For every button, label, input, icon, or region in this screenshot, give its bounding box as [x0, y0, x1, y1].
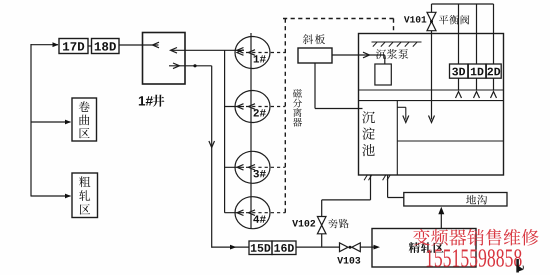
pipe V103 to finishing area: [360, 246, 376, 248]
label 4#: [253, 215, 265, 222]
wire pump header into well: [171, 49, 244, 51]
tank divider vertical: [396, 101, 398, 175]
valve V102: [317, 217, 326, 226]
box trench 地沟: [404, 193, 507, 207]
arrow pump 1# discharge: [237, 50, 244, 56]
arrow at pump 1 outlet pointing left: [237, 48, 244, 54]
label 2#: [254, 109, 266, 116]
arrow pump 4# discharge: [237, 210, 244, 216]
dashed suction line pump 2#: [246, 106, 285, 108]
cursor mark: [516, 259, 519, 273]
wire pump suction bus: [224, 50, 226, 212]
arrow up 1D: [474, 92, 480, 99]
dashed suction line pump 3#: [246, 166, 285, 168]
wire to box 17D: [31, 44, 58, 46]
wire well outlet: [169, 65, 212, 67]
tank water level hatch: [372, 41, 422, 43]
V101 drop pipe into tank: [431, 31, 433, 120]
box 15D: [249, 241, 272, 255]
valve V103: [340, 243, 349, 252]
box coiling area 卷曲区: [72, 98, 97, 141]
box slurry pump: [375, 64, 391, 85]
box 2D: [486, 64, 501, 78]
label 磁分离器 vertical: [293, 89, 302, 98]
wire left supply vertical: [30, 44, 32, 197]
box inclined plate: [298, 48, 332, 63]
arrow pump 3# discharge: [237, 165, 244, 171]
pump 4#: [235, 197, 270, 229]
feeder line 2D: [493, 4, 495, 64]
tank divider outlet stub: [397, 106, 406, 108]
pipe 16D to V103: [296, 246, 340, 248]
label 精轧区: [409, 242, 420, 253]
box 3D: [450, 64, 468, 78]
label 旁路: [328, 219, 339, 229]
label 沉浆泵: [376, 49, 386, 59]
wire well water column through pumps: [250, 33, 252, 229]
feeder line 1D: [476, 4, 478, 64]
arrow into roughing area box: [65, 194, 71, 199]
junction dot: [193, 64, 196, 67]
arrow into well pointing left: [171, 48, 178, 54]
label V102: [292, 220, 315, 227]
wire 17D-18D: [88, 45, 92, 47]
box finishing area 精轧区: [372, 229, 476, 268]
dashed boundary corner drop: [393, 19, 395, 34]
valve V101 balance valve: [431, 4, 433, 12]
arrow up 3D: [456, 92, 462, 99]
dashed suction line pump 4#: [246, 212, 285, 214]
suction stub 3D: [458, 78, 460, 90]
arrow into 17D: [53, 42, 59, 47]
label V101: [404, 16, 426, 22]
arrow at well inlet pointing left: [153, 42, 160, 48]
label 1#: [254, 55, 266, 62]
pump 1#: [235, 37, 270, 69]
arrow on supply pipe pointing right: [230, 245, 237, 250]
box 16D: [272, 241, 296, 255]
wire bus stub to pump 4#: [225, 212, 244, 214]
box 1D: [468, 64, 486, 78]
dashed boundary top: [283, 18, 394, 20]
wire bus stub to pump 2#: [225, 106, 244, 108]
tank lower level line: [397, 140, 503, 142]
box 17D: [59, 39, 88, 54]
wire branch to roughing area: [31, 195, 71, 197]
watermark text: [413, 229, 430, 246]
wire bus stub to pump 3#: [225, 166, 244, 168]
label 斜板: [303, 34, 313, 44]
label 3#: [253, 170, 265, 177]
box 18D: [92, 39, 120, 54]
suction stub 2D: [493, 78, 495, 90]
wire outlet down to supply pipe: [211, 66, 213, 248]
box roughing area 粗轧区: [72, 173, 98, 218]
wire branch to coiling area: [31, 121, 71, 123]
wire inclined plate to slurry pump: [332, 54, 385, 56]
arrow up 2D: [491, 92, 497, 99]
tank 沉淀池 outer box: [359, 34, 504, 176]
tank level line 2: [359, 100, 504, 102]
dashed boundary left vertical: [284, 19, 286, 214]
dashed suction line pump 1#: [246, 52, 285, 54]
wire finish area to trench with up arrow: [440, 214, 442, 229]
label V103: [337, 257, 360, 264]
box well 1#: [143, 33, 186, 85]
wire 18D to well: [119, 44, 159, 46]
arrow pump 2# discharge: [237, 104, 244, 110]
top rail: [432, 3, 494, 5]
arrow into coiling area box: [65, 120, 71, 125]
arrow well outlet pointing right: [173, 63, 180, 69]
tank bottom hatch marks: [364, 175, 367, 181]
flow arrow down: [209, 141, 215, 148]
label 1#井: [139, 96, 153, 105]
pump 3#: [235, 151, 270, 183]
feeder line 3D: [458, 4, 460, 64]
V102 to main pipe: [321, 234, 323, 247]
drain to trench: [387, 175, 389, 198]
label 平衡阀: [439, 15, 448, 24]
pump 2#: [235, 91, 270, 123]
label 沉淀池 vertical: [362, 111, 375, 123]
suction stub 1D: [476, 78, 478, 90]
drain to bypass: [370, 175, 372, 200]
wire magnetic separator line: [314, 63, 316, 109]
tank level line 1: [359, 89, 504, 91]
